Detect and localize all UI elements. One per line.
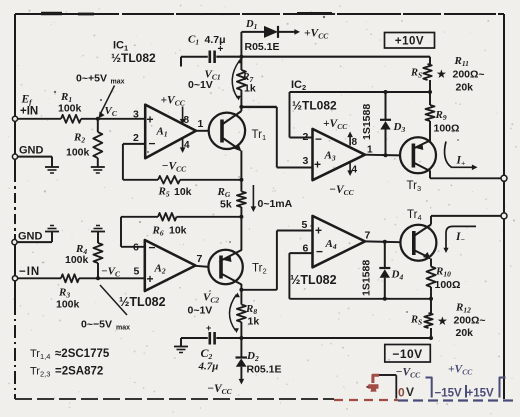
svg-text:6: 6: [133, 242, 139, 254]
svg-text:+: +: [147, 272, 154, 286]
ground GND upper: [45, 167, 59, 173]
node feedback R9 junction: [428, 90, 432, 94]
svg-text:0~−5V: 0~−5V: [81, 319, 112, 331]
svg-text:100Ω: 100Ω: [435, 279, 461, 291]
node A4 output junction: [383, 240, 387, 244]
ground above R4: [91, 226, 105, 232]
op-amp A4: [313, 216, 366, 267]
label I+ hook: [445, 142, 478, 171]
resistor R5 10k: [158, 176, 192, 198]
frame bottom navy dashes: [398, 399, 516, 401]
svg-text:−: −: [149, 137, 156, 151]
resistor R3: [56, 274, 80, 310]
node rail R7 junction: [239, 55, 243, 59]
resistor R6 10k: [152, 213, 187, 237]
label -VCC bottom: [207, 383, 233, 396]
pin 6 label A4: [303, 243, 309, 255]
label 0V: [398, 385, 414, 400]
wire bottom rail: [181, 337, 430, 339]
svg-text:−: −: [149, 241, 156, 255]
svg-text:7: 7: [197, 253, 203, 265]
op-amp A2: [145, 240, 196, 291]
node VC junction: [96, 105, 118, 121]
op-amp A3: [313, 129, 365, 180]
pin 1 label A3: [367, 145, 373, 156]
label -VC pin5: [101, 266, 140, 279]
pin 8 arrow A1: [180, 107, 190, 127]
label Tr23 2SA872: [30, 366, 103, 379]
ground GND lower: [45, 226, 59, 232]
resistor R4: [65, 232, 103, 279]
pin 2 label: [133, 132, 139, 144]
svg-text:100k: 100k: [65, 254, 89, 266]
resistor R12 Rs: [424, 299, 432, 338]
frame top border: [15, 13, 504, 15]
pin 2 label A3: [303, 131, 309, 143]
svg-text:+: +: [315, 224, 322, 238]
frame right border: [503, 14, 505, 399]
wire 0V leader: [395, 375, 397, 398]
wire +IN input: [18, 118, 146, 120]
svg-text:½TL082: ½TL082: [119, 295, 166, 309]
svg-text:1S1588: 1S1588: [361, 104, 373, 140]
wire A3 output: [365, 154, 400, 157]
svg-text:200Ω~: 200Ω~: [454, 315, 486, 327]
label -10V box: [385, 345, 431, 363]
resistor R9: [426, 92, 460, 135]
node GND terminal upper: [12, 145, 43, 160]
svg-text:10k: 10k: [174, 186, 192, 198]
label VC2 bracket: [188, 292, 240, 334]
svg-text:R05.1E: R05.1E: [245, 41, 280, 53]
svg-text:★: ★: [436, 67, 447, 81]
label -VCC A1: [162, 161, 188, 174]
svg-text:0~+5V: 0~+5V: [76, 73, 107, 85]
label R12 value: [454, 302, 486, 340]
node Tr1 collector junction: [239, 105, 243, 109]
svg-text:4: 4: [352, 165, 358, 176]
label +VCC annotation: [448, 364, 473, 377]
svg-text:4.7μ: 4.7μ: [198, 361, 219, 373]
svg-text:8: 8: [352, 137, 358, 148]
svg-text:GND: GND: [18, 231, 43, 243]
wire blue bracket right: [500, 378, 506, 398]
label half TL082 IC2b: [290, 273, 337, 287]
wire top rail: [181, 56, 430, 58]
svg-text:5: 5: [134, 266, 140, 278]
wire Tr1 emitter: [240, 151, 242, 180]
wire -IN input: [18, 277, 145, 279]
svg-text:100k: 100k: [56, 299, 80, 311]
label IC2 half TL082: [292, 99, 337, 113]
svg-text:★: ★: [437, 314, 448, 328]
svg-text:+15V: +15V: [467, 388, 495, 400]
svg-text:0: 0: [398, 386, 405, 400]
resistor R1: [58, 91, 82, 123]
pin 6 label: [133, 242, 139, 254]
label half TL082 IC1b: [119, 295, 166, 309]
svg-text:−10V: −10V: [392, 347, 422, 361]
svg-text:1k: 1k: [244, 83, 256, 95]
label Tr14 2SC1775: [30, 348, 110, 361]
svg-text:3: 3: [303, 155, 309, 167]
node R12 rail junction: [429, 336, 433, 340]
wire GND lower: [17, 232, 52, 242]
wire blue bracket mid: [465, 385, 467, 398]
svg-text:R05.1E: R05.1E: [247, 364, 282, 376]
wire A2 pin6 feedback: [121, 217, 241, 247]
wire blue bracket left: [426, 378, 432, 398]
svg-text:+: +: [147, 113, 154, 127]
svg-text:+IN: +IN: [20, 106, 38, 118]
label +VCC A3: [323, 118, 348, 131]
label VC1 bracket: [188, 59, 242, 101]
svg-text:1S1588: 1S1588: [361, 260, 373, 296]
node rail R8 junction: [239, 336, 243, 340]
label 1S1588 D4: [361, 260, 373, 296]
resistor R8: [237, 290, 259, 338]
wire Tr3 emitter: [429, 130, 431, 142]
op-amp A1: [145, 105, 196, 159]
resistor RG 5k: [217, 180, 246, 217]
wire Tr1 collector: [240, 107, 242, 111]
wire Tr2 emitter: [240, 217, 242, 251]
node R10 R12 junction: [429, 297, 433, 301]
pin 3 label A3: [303, 155, 309, 167]
svg-text:½TL082: ½TL082: [292, 99, 337, 113]
frame bottom red dashes: [334, 399, 398, 401]
svg-text:=2SA872: =2SA872: [55, 366, 103, 378]
node I+ output terminal: [501, 175, 507, 181]
arrow 0~1mA: [251, 185, 293, 212]
wire A4 pin6 feedback: [289, 253, 430, 299]
svg-text:0~1mA: 0~1mA: [258, 198, 293, 210]
diode D1: [241, 19, 300, 57]
label -VCC A3: [329, 184, 355, 197]
svg-text:+: +: [206, 323, 211, 333]
node A3 output junction: [384, 153, 388, 157]
transistor Tr1: [209, 111, 266, 152]
svg-text:−15V: −15V: [435, 388, 463, 400]
capacitor C2: [198, 323, 219, 373]
resistor Rs R11: [423, 57, 431, 92]
transistor Tr2: [208, 250, 266, 285]
svg-text:100k: 100k: [58, 103, 82, 115]
label IC2: [291, 79, 306, 92]
wire Tr2 to A4 pin5: [241, 231, 312, 290]
resistor R10: [427, 266, 461, 299]
resistor R7: [237, 57, 256, 107]
node +IN terminal: [12, 94, 38, 122]
svg-text:100k: 100k: [66, 147, 90, 159]
pin 4 arrow A1: [180, 139, 190, 153]
wire A2 output: [196, 266, 209, 267]
svg-text:7: 7: [365, 230, 371, 242]
svg-text:1k: 1k: [248, 316, 260, 328]
svg-text:10k: 10k: [169, 225, 187, 237]
svg-text:6: 6: [303, 243, 309, 255]
top border thick blobs: [41, 12, 332, 16]
svg-text:5k: 5k: [220, 199, 232, 211]
svg-text:20k: 20k: [456, 82, 474, 94]
wire A1 pin2 feedback: [123, 144, 241, 180]
transistor Tr4: [400, 209, 436, 261]
label -VCC annotation: [396, 367, 422, 380]
wire Tr4 collector: [431, 216, 502, 225]
svg-text:8: 8: [184, 115, 190, 126]
wire Tr3 collector: [430, 171, 502, 179]
diode D3: [380, 92, 405, 155]
capacitor C1: [188, 34, 226, 64]
transistor Tr3: [400, 137, 436, 192]
diode D4: [379, 242, 403, 299]
svg-text:0~1V: 0~1V: [188, 79, 213, 91]
node D3 top junction: [384, 90, 388, 94]
label 0~+5Vmax pointer: [76, 73, 125, 119]
node RG bottom junction: [239, 215, 243, 219]
wire GND upper: [18, 157, 53, 167]
label 0~-5Vmax pointer: [81, 285, 130, 332]
label IC1 half TL082: [111, 51, 156, 65]
label Rs star top: [410, 67, 447, 81]
node Tr2 collector junction: [239, 288, 243, 292]
diode D2: [236, 338, 282, 385]
node RG top junction: [239, 178, 243, 182]
label 1S1588 D3: [361, 104, 373, 140]
svg-text:max: max: [111, 79, 125, 86]
svg-text:0~1V: 0~1V: [188, 305, 213, 317]
node I- output terminal: [501, 213, 507, 219]
frame bottom border: [15, 398, 334, 400]
ground bottom rail: [174, 338, 188, 353]
node D4 bottom junction: [383, 297, 387, 301]
pin 4 arrow A3: [347, 163, 357, 176]
svg-text:4: 4: [184, 140, 190, 151]
svg-text:−: −: [316, 245, 323, 259]
resistor R2: [66, 119, 102, 167]
pin 7 label A4: [365, 230, 371, 242]
pin 3 label: [133, 109, 139, 121]
svg-text:2: 2: [303, 131, 309, 143]
node R4 junction: [96, 276, 100, 280]
label -15V +15V: [435, 388, 495, 400]
svg-text:GND: GND: [19, 145, 44, 157]
svg-text:3: 3: [133, 109, 139, 121]
svg-text:−IN: −IN: [19, 266, 40, 278]
svg-text:100Ω: 100Ω: [434, 123, 460, 135]
node -IN terminal: [12, 266, 40, 281]
svg-text:5: 5: [302, 219, 308, 231]
pin 7 label: [197, 253, 203, 265]
svg-text:1: 1: [198, 118, 204, 130]
wire Tr2 collector: [240, 284, 242, 290]
wire A1 output: [196, 130, 209, 132]
svg-text:max: max: [116, 325, 130, 332]
wire Tr4 emitter: [430, 259, 432, 267]
svg-text:4.7μ: 4.7μ: [205, 34, 226, 46]
wire A4 output: [365, 240, 400, 243]
svg-text:20k: 20k: [456, 327, 474, 339]
pin 1 label: [198, 118, 204, 130]
svg-text:200Ω~: 200Ω~: [453, 69, 485, 81]
ground below R2: [91, 167, 105, 173]
wire A3 pin2 feedback: [290, 92, 431, 138]
frame left border: [14, 14, 16, 399]
label R11 value: [453, 55, 485, 94]
node GND terminal lower: [12, 231, 43, 245]
svg-text:½TL082: ½TL082: [290, 273, 337, 287]
svg-text:½TL082: ½TL082: [111, 51, 156, 65]
label IC1: [113, 40, 128, 53]
wire Tr1 to A3 pin3: [241, 107, 312, 168]
svg-text:+10V: +10V: [395, 36, 424, 48]
pin 8 arrow A3: [347, 132, 357, 149]
svg-text:+: +: [314, 158, 321, 172]
svg-text:≈2SC1775: ≈2SC1775: [55, 348, 110, 360]
wire red bracket: [373, 375, 396, 383]
label +VCC A1: [161, 95, 186, 108]
svg-text:V: V: [406, 385, 414, 399]
svg-text:−: −: [315, 132, 322, 146]
label I- hook: [443, 226, 476, 253]
label +10V box: [385, 33, 435, 49]
pin 5 label A4: [302, 219, 308, 231]
red probe symbol: [367, 384, 379, 392]
label Rs star bottom: [410, 314, 448, 328]
label +VCC top: [304, 28, 329, 41]
wire rail stub left: [180, 57, 182, 67]
